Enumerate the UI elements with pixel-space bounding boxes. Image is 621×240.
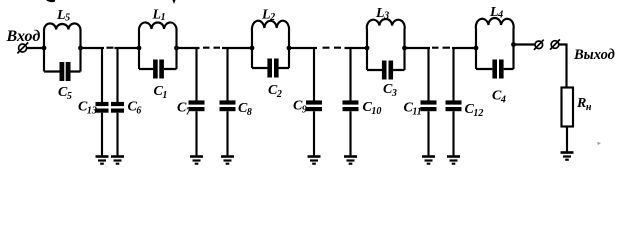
node right of tank 4 <box>402 46 407 51</box>
capacitor C6 (shunt) <box>111 48 124 156</box>
wire tank4 to C11 <box>405 47 431 49</box>
ground under C8 <box>221 157 234 164</box>
svg-text:C1: C1 <box>154 84 168 101</box>
node right of tank 1 <box>78 46 83 51</box>
capacitor C11 (shunt) <box>421 48 437 156</box>
ground under C7 <box>190 157 203 164</box>
ground under C12 <box>447 157 460 164</box>
output terminal 1 <box>534 40 544 50</box>
svg-text:L4: L4 <box>489 5 503 21</box>
ground under C6 <box>111 157 124 164</box>
dashed wire (omitted section) <box>432 47 450 49</box>
wire tank5 to output terminal <box>514 43 536 45</box>
stray mark top edge middle <box>173 0 176 4</box>
dashed wire (omitted section) <box>107 47 114 49</box>
svg-text:C4: C4 <box>492 89 506 106</box>
svg-text:C2: C2 <box>268 83 282 100</box>
wire tank1 to C13 <box>81 47 105 49</box>
node left of tank 3 <box>250 46 255 51</box>
capacitor C9 (shunt) <box>306 48 322 156</box>
node left of tank 2 <box>137 46 142 51</box>
capacitor C10 (shunt) <box>343 48 359 156</box>
wire C6 to tank2 <box>115 47 140 49</box>
svg-text:C13: C13 <box>78 100 97 117</box>
dashed wire (omitted section) <box>323 47 342 49</box>
wire C12 to tank5 <box>452 47 476 49</box>
inductor L5 <box>44 23 81 71</box>
input terminal <box>17 42 28 53</box>
node right of tank 3 <box>287 46 292 51</box>
svg-text:L3: L3 <box>375 6 389 22</box>
wire tank2 to C7 <box>177 47 200 49</box>
svg-text:C5: C5 <box>58 85 72 102</box>
ground under RH <box>561 153 574 160</box>
svg-text:C11: C11 <box>404 101 422 118</box>
ground under C10 <box>344 157 357 164</box>
ground under C9 <box>308 157 321 164</box>
svg-text:C6: C6 <box>128 100 142 117</box>
dashed wire (omitted section) <box>203 47 220 49</box>
capacitor C1 <box>139 60 177 79</box>
output terminal 2 <box>550 39 560 49</box>
ground under C13 <box>96 157 109 164</box>
svg-text:C9: C9 <box>293 99 307 116</box>
inductor L1 <box>139 22 177 69</box>
ground under C11 <box>422 157 435 164</box>
inductor L2 <box>252 21 289 68</box>
resistor RH <box>562 88 574 127</box>
capacitor C5 <box>44 62 81 81</box>
node left of tank 4 <box>365 46 370 51</box>
capacitor C2 <box>252 59 289 78</box>
stray mark top edge left <box>46 0 55 2</box>
inductor L3 <box>367 19 405 70</box>
svg-text:Вход: Вход <box>6 28 41 45</box>
svg-text:Rн: Rн <box>576 96 592 113</box>
svg-text:L2: L2 <box>261 8 275 24</box>
capacitor C13 (shunt) <box>96 48 109 156</box>
svg-text:C12: C12 <box>465 102 484 119</box>
wire C10 to tank4 <box>345 47 368 49</box>
node left of tank 5 <box>474 46 479 51</box>
node right of tank 5 <box>511 42 516 47</box>
capacitor C4 <box>476 60 514 79</box>
svg-text:Выход: Выход <box>573 47 615 63</box>
wire tank3 to C9 <box>289 47 317 49</box>
capacitor C3 <box>367 61 405 80</box>
capacitor C8 (shunt) <box>220 48 236 156</box>
svg-text:L1: L1 <box>152 8 166 24</box>
inductor L4 <box>476 18 514 69</box>
svg-text:C3: C3 <box>383 82 397 99</box>
wire C8 to tank3 <box>222 47 252 49</box>
node left of tank 1 <box>42 46 47 51</box>
wire RH to ground <box>566 127 568 153</box>
svg-text:C8: C8 <box>238 101 252 118</box>
capacitor C7 (shunt) <box>189 48 205 156</box>
svg-text:L5: L5 <box>56 8 70 24</box>
faint speck bottom right <box>597 142 601 145</box>
wire input to tank1 <box>27 47 44 49</box>
svg-text:C10: C10 <box>363 100 382 117</box>
wire output terminal to RH branch <box>559 45 567 88</box>
capacitor C12 (shunt) <box>446 48 462 156</box>
node right of tank 2 <box>174 46 179 51</box>
